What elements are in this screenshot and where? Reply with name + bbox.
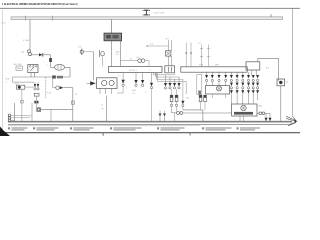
svg-text:M: M [30, 116, 32, 118]
svg-text:J/B No.2: J/B No.2 [129, 70, 138, 72]
svg-text:B-W: B-W [6, 79, 10, 81]
svg-text:F 15A: F 15A [23, 39, 29, 42]
svg-text:W-B: W-B [2, 23, 7, 25]
svg-text:W: W [102, 109, 104, 111]
svg-text:RLY: RLY [15, 84, 20, 86]
svg-text:A/C SW: A/C SW [14, 63, 21, 66]
svg-text:B-W: B-W [47, 93, 51, 95]
svg-text:GRD POINT: GRD POINT [154, 12, 166, 14]
svg-text:W-B: W-B [132, 90, 137, 92]
svg-text:TAIL: TAIL [258, 105, 263, 108]
svg-text:7 ELECTRICAL WIRING DIAGRAM SY: 7 ELECTRICAL WIRING DIAGRAM SYSTEM CIRCU… [2, 3, 78, 6]
svg-text:DEF: DEF [215, 65, 220, 67]
svg-text:W: W [75, 94, 77, 96]
